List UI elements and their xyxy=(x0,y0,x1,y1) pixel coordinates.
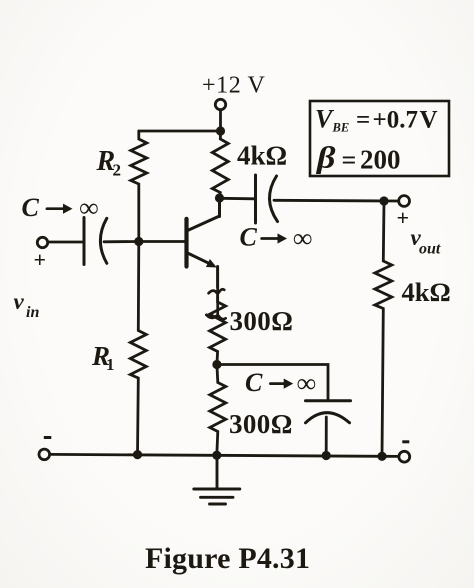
label 4kOhm load xyxy=(402,277,451,307)
svg-text:Figure P4.31: Figure P4.31 xyxy=(145,542,310,575)
svg-text:C: C xyxy=(245,368,263,397)
node input terminal xyxy=(37,237,47,247)
node bottom-left terminal xyxy=(39,449,50,460)
resistor R1 xyxy=(130,242,146,455)
resistor RC 4k xyxy=(212,135,228,197)
wire base xyxy=(139,240,185,243)
svg-text:4kΩ: 4kΩ xyxy=(237,140,287,170)
svg-text:4kΩ: 4kΩ xyxy=(402,277,451,307)
svg-text:2: 2 xyxy=(113,161,122,180)
wire bypass cap to bottom xyxy=(325,417,328,455)
resistor RE2 300 xyxy=(210,365,226,456)
resistor RL 4k load xyxy=(375,201,392,456)
label 4kOhm collector xyxy=(237,140,287,170)
label VBE = +0.7 V xyxy=(315,105,438,135)
node emitter junction xyxy=(212,360,221,369)
node output junction xyxy=(379,196,388,205)
node bottom R1 junction xyxy=(133,450,142,459)
label Figure P4.31 xyxy=(145,542,310,575)
capacitor C1 input C→∞ xyxy=(84,218,107,265)
label 300 ohm lower xyxy=(229,409,293,439)
svg-text:300Ω: 300Ω xyxy=(230,306,294,336)
svg-text:+: + xyxy=(34,247,47,272)
label minus right xyxy=(402,440,409,443)
svg-text:=: = xyxy=(342,146,357,175)
label beta = 200 xyxy=(316,140,401,175)
wire +12V terminal to top node xyxy=(219,110,222,131)
wire collector to output capacitor xyxy=(220,197,256,200)
svg-text:300Ω: 300Ω xyxy=(229,409,293,439)
svg-text:∞: ∞ xyxy=(297,368,316,398)
node bottom emitter junction xyxy=(212,451,221,460)
svg-text:∞: ∞ xyxy=(293,223,312,253)
wire bottom rail xyxy=(50,454,399,456)
svg-text:=: = xyxy=(356,107,370,134)
node bottom-right terminal xyxy=(399,451,410,462)
node bottom bypass junction xyxy=(322,451,331,460)
capacitor C3 bypass C→∞ xyxy=(306,401,351,423)
svg-text:β: β xyxy=(316,140,336,175)
node supply junction xyxy=(216,126,225,135)
svg-text:v: v xyxy=(14,289,25,314)
label plus output xyxy=(397,205,410,230)
node output terminal xyxy=(399,196,410,207)
annotation mark on emitter xyxy=(206,289,225,319)
svg-text:+: + xyxy=(397,205,410,230)
label +12 V xyxy=(202,73,266,99)
transistor Q1 xyxy=(187,198,220,287)
svg-text:+0.7: +0.7 xyxy=(373,107,419,134)
wire emitter junction to bypass cap xyxy=(217,365,328,400)
svg-text:1: 1 xyxy=(106,355,115,374)
svg-text:BE: BE xyxy=(332,121,350,135)
label minus left xyxy=(44,436,52,439)
parameter box xyxy=(310,101,449,176)
node bottom right junction xyxy=(377,452,386,461)
label R2 xyxy=(96,146,122,179)
wire input to capacitor xyxy=(48,241,84,244)
ground xyxy=(194,455,240,504)
label C→∞ bypass xyxy=(245,368,316,398)
node base junction xyxy=(134,237,143,246)
label v_in xyxy=(14,289,40,321)
svg-text:C: C xyxy=(240,223,258,252)
svg-text:200: 200 xyxy=(360,145,401,175)
wire top horizontal xyxy=(139,130,221,133)
node +12V terminal xyxy=(215,99,225,109)
label plus input xyxy=(34,247,47,272)
svg-text:+12 V: +12 V xyxy=(202,73,266,99)
svg-text:C: C xyxy=(22,193,40,222)
wire capacitor to base node xyxy=(104,240,139,243)
wire output capacitor to output node xyxy=(274,199,399,202)
resistor R2 xyxy=(131,131,147,242)
capacitor C2 output C→∞ xyxy=(256,175,278,223)
node collector junction xyxy=(215,193,224,202)
label v_out xyxy=(411,225,441,258)
label C→∞ input xyxy=(22,193,99,223)
svg-text:out: out xyxy=(419,241,441,258)
label C→∞ output xyxy=(240,223,313,254)
label 300 ohm upper xyxy=(230,306,294,336)
svg-text:∞: ∞ xyxy=(79,193,98,223)
resistor RE1 300 xyxy=(210,287,226,365)
svg-text:V: V xyxy=(420,107,438,134)
label R1 xyxy=(91,341,115,374)
svg-text:in: in xyxy=(26,304,39,321)
